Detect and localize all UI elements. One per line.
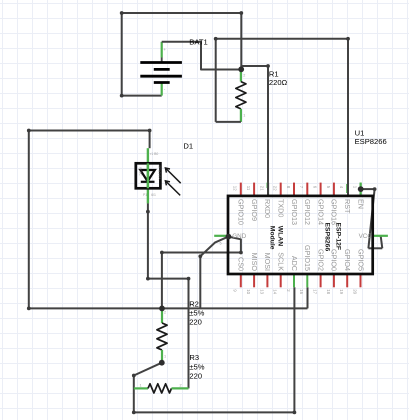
svg-text:GPIO14: GPIO14 [316,199,325,225]
svg-text:MISO: MISO [250,253,259,272]
svg-text:D1: D1 [183,142,193,151]
svg-text:±5%: ±5% [189,362,204,371]
svg-text:GPIO10: GPIO10 [237,199,246,225]
svg-text:RXD0: RXD0 [263,199,272,218]
svg-text:Module: Module [268,226,275,250]
svg-text:GPIO9: GPIO9 [250,199,259,221]
svg-text:ESP8266: ESP8266 [324,223,331,252]
svg-text:220Ω: 220Ω [269,78,288,87]
svg-text:ESP-12F: ESP-12F [335,223,342,251]
svg-text:VCC: VCC [359,233,373,240]
svg-text:20: 20 [352,289,357,294]
svg-text:ESP8266: ESP8266 [355,137,387,146]
svg-text:2: 2 [243,74,245,78]
svg-text:BPW34FA: BPW34FA [157,166,161,180]
svg-text:21: 21 [259,186,264,191]
svg-text:12: 12 [233,186,238,191]
svg-text:GND: GND [232,233,246,240]
svg-text:GPIO15: GPIO15 [303,245,312,271]
svg-text:GPIO5: GPIO5 [356,249,365,271]
svg-text:16: 16 [299,289,304,294]
svg-text:GPIO0: GPIO0 [330,249,339,271]
svg-text:BAT1: BAT1 [189,38,207,47]
svg-text:GPIO12: GPIO12 [303,199,312,225]
svg-text:13: 13 [259,289,264,294]
svg-text:SCLK: SCLK [277,252,286,271]
svg-text:2: 2 [164,311,166,315]
svg-text:GPIO2: GPIO2 [316,249,325,271]
svg-text:R3: R3 [189,353,199,362]
svg-text:P1: P1 [143,193,147,197]
svg-text:PD5C: PD5C [139,168,143,177]
svg-text:220: 220 [189,372,202,381]
svg-text:6/1: 6/1 [151,193,156,197]
svg-text:220: 220 [189,318,202,327]
svg-text:17: 17 [313,289,318,294]
svg-text:5: 5 [220,242,222,246]
svg-text:r1 B0: r1 B0 [150,152,158,156]
svg-text:ADC: ADC [290,256,299,271]
svg-text:18: 18 [326,289,331,294]
svg-text:EN: EN [356,199,365,209]
svg-text:±5%: ±5% [189,308,204,317]
svg-text:WLAN: WLAN [277,226,284,246]
svg-text:R2: R2 [189,299,199,308]
svg-text:22: 22 [273,186,278,191]
svg-text:TXD0: TXD0 [277,199,286,217]
svg-text:GPIO4: GPIO4 [343,249,352,271]
svg-text:14: 14 [273,289,278,294]
svg-text:10: 10 [246,289,251,294]
svg-text:1: 1 [140,383,142,387]
svg-text:1: 1 [243,114,245,118]
svg-text:CS0: CS0 [237,257,246,271]
svg-text:+: + [163,47,166,52]
svg-text:19: 19 [339,289,344,294]
svg-text:GPIO13: GPIO13 [290,199,299,225]
svg-text:11: 11 [246,186,251,191]
svg-text:2: 2 [180,383,182,387]
svg-text:MOSI: MOSI [263,253,272,271]
svg-text:RST: RST [343,199,352,214]
svg-text:GPIO16: GPIO16 [330,199,339,225]
svg-text:1: 1 [164,355,166,359]
